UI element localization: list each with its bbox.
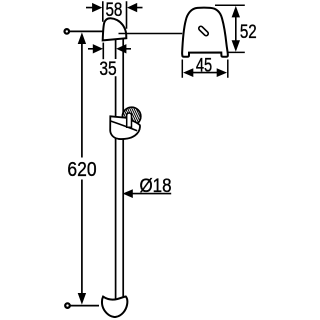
wire: top wall fixing leader line — [70, 30, 103, 32]
slider holder body — [110, 116, 140, 139]
slider cup rim line — [111, 121, 138, 131]
handset holder slot — [198, 25, 209, 36]
svg-text:52: 52 — [240, 20, 257, 42]
svg-text:58: 58 — [105, 0, 122, 20]
node: bottom wall fixing point circle — [65, 303, 70, 308]
svg-text:Ø18: Ø18 — [139, 174, 171, 196]
slider pin — [127, 113, 132, 127]
svg-text:35: 35 — [99, 57, 117, 79]
label diameter Ø18 with leader arrow — [123, 189, 172, 198]
dimension 35 — [88, 43, 131, 60]
slider knob knurling hatch — [115, 100, 145, 133]
top wall bracket (side view) — [103, 18, 127, 40]
rail (vertical bar Ø18) — [116, 39, 124, 299]
dimension 58 — [86, 1, 143, 29]
bottom wall bracket (end cap) — [102, 297, 127, 318]
dimension 52 — [215, 5, 245, 52]
node: top wall fixing point circle — [65, 29, 70, 34]
dimension 620 line — [78, 32, 86, 304]
wire: bottom wall fixing leader line — [70, 305, 99, 307]
svg-text:45: 45 — [196, 53, 212, 76]
wire: leader line from bracket to holder front view — [119, 33, 183, 35]
dimension 45 — [182, 60, 228, 78]
svg-text:620: 620 — [67, 158, 96, 180]
slider knurled knob — [122, 107, 140, 125]
handset holder (front view, enlarged detail) — [182, 8, 228, 57]
